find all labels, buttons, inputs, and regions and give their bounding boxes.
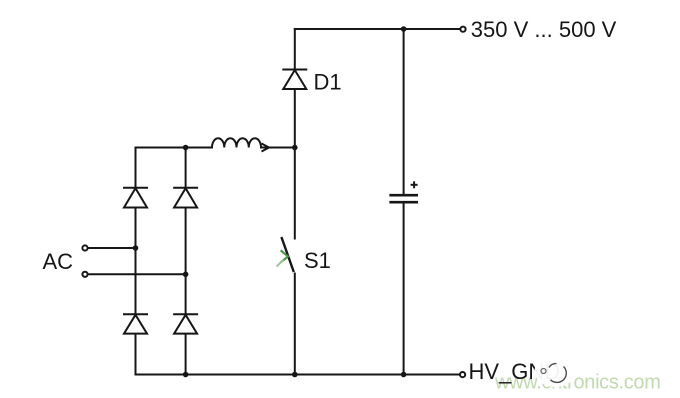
wire top rail <box>295 28 459 30</box>
switch S1 lever <box>281 237 293 272</box>
junction node top (cap / rail) <box>401 26 407 32</box>
wire right bridge branch <box>185 148 187 375</box>
terminal output positive <box>460 27 465 32</box>
switch S1 control arrow (green) <box>277 250 288 266</box>
junction node bottom bridge <box>183 372 189 378</box>
svg-text:AC: AC <box>43 249 74 274</box>
junction node boost (L / D1 / switch) <box>292 145 298 151</box>
junction node AC2 <box>183 272 189 278</box>
svg-text:350 V ... 500 V: 350 V ... 500 V <box>471 17 617 42</box>
junction node bottom switch <box>292 372 298 378</box>
wire inductor to node <box>261 147 295 149</box>
junction node bottom cap <box>401 372 407 378</box>
inductor L1 <box>212 138 261 147</box>
wire capacitor lower <box>403 203 405 375</box>
junction node bridge top-right <box>183 145 189 151</box>
wire input horizontal <box>136 147 213 149</box>
svg-text:S1: S1 <box>304 248 331 273</box>
terminal AC2 <box>82 272 87 277</box>
diode D1 <box>282 70 307 90</box>
diode bridge bottom-left <box>123 314 148 333</box>
terminal AC1 <box>82 245 87 250</box>
wire switch lower <box>294 274 296 375</box>
wire left bridge branch <box>135 148 137 375</box>
diode bridge bottom-right <box>173 314 198 333</box>
wire switch upper <box>294 148 296 239</box>
watermark logo arc top <box>549 364 557 368</box>
wire AC line 2 <box>88 273 186 275</box>
wire D1 branch upper <box>294 29 296 70</box>
wire AC line 1 <box>88 247 136 249</box>
wire capacitor upper <box>403 29 405 194</box>
diode bridge top-left <box>123 188 148 208</box>
svg-text:D1: D1 <box>314 69 342 94</box>
watermark logo small circle <box>541 369 546 374</box>
wire bottom rail <box>136 374 459 376</box>
capacitor polarity plus <box>411 181 418 188</box>
diode bridge top-right <box>173 188 198 208</box>
watermark logo blob <box>535 355 577 387</box>
terminal HV ground <box>460 372 465 377</box>
capacitor C1 plates <box>389 195 418 202</box>
wire D1 branch lower <box>294 89 296 148</box>
junction node AC1 <box>133 245 139 251</box>
arrow inductor current <box>262 144 270 152</box>
watermark logo arc bottom <box>551 367 567 383</box>
